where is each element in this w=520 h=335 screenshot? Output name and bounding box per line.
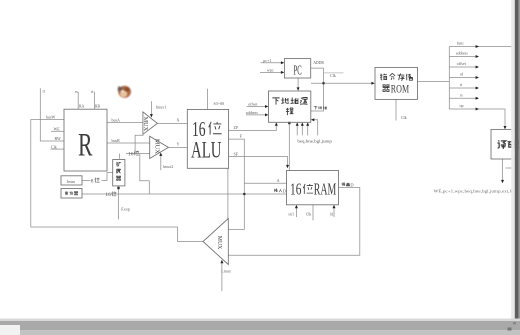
svg-text:lmux2: lmux2 [163, 164, 173, 169]
svg-text:offset: offset [457, 61, 467, 66]
wire ALU corner to MUX3 corner [227, 168, 229, 218]
arrow rd field [476, 76, 479, 79]
label register small box [65, 191, 68, 194]
svg-text:Clk: Clk [401, 115, 407, 120]
wire F output down [228, 139, 244, 229]
arrow decoder out [501, 180, 504, 183]
wire lmux2 control [160, 156, 162, 171]
svg-text:rs: rs [75, 89, 78, 94]
wire decoder side stub [506, 167, 518, 169]
wire Clk stub PC dashed [324, 72, 344, 74]
svg-text:S3~S0: S3~S0 [214, 101, 225, 106]
JUNCTIONS [117, 82, 324, 195]
svg-text:beq,bne,bgl,jump: beq,bne,bgl,jump [297, 138, 332, 144]
wire rd field [449, 77, 478, 79]
svg-text:rt: rt [91, 89, 94, 94]
wire to ROM address [311, 82, 372, 84]
svg-text:offset: offset [248, 101, 258, 106]
svg-text:RAM: RAM [314, 180, 337, 199]
PC box [284, 59, 310, 78]
wire lmux1 control [150, 101, 152, 114]
LARGE TEXT [78, 63, 336, 198]
wire rs into RA [77, 92, 79, 109]
ALU box [187, 110, 228, 169]
wire A address into RAM [244, 182, 286, 184]
junction ADDR with rom line [322, 82, 324, 84]
wire Exop control [118, 186, 120, 220]
register file R [64, 109, 107, 171]
wire SF down arrow [229, 157, 288, 166]
decoder box [491, 129, 518, 159]
wire RAM clk stub [312, 205, 314, 221]
wire Y alu input [168, 146, 187, 148]
photo border right [511, 0, 520, 335]
wire ZF to addr logic [229, 124, 277, 131]
svg-text:Clk: Clk [330, 73, 336, 78]
svg-text:R: R [78, 128, 93, 164]
svg-text:MUX: MUX [216, 236, 222, 250]
wire ADDR from PC [311, 68, 324, 111]
wire address into addr logic [246, 114, 266, 116]
extender box [113, 160, 125, 186]
svg-text:RA: RA [79, 105, 85, 109]
svg-text:address: address [246, 110, 258, 115]
wire RAM str stub [295, 208, 297, 218]
svg-text:pc+1: pc+1 [263, 58, 271, 63]
wire field tap vertical [448, 47, 450, 110]
small reg box glyphs [65, 191, 78, 195]
arrow address into addr logic [265, 113, 268, 116]
svg-text:Lmux: Lmux [221, 269, 231, 274]
svg-text:Exop: Exop [121, 207, 129, 212]
wire rt into RB [93, 92, 95, 109]
label ji line2 [286, 108, 294, 115]
MUX vertical texts [142, 117, 222, 250]
label yimaqi decoder [497, 140, 520, 148]
wire 16bit down to ram data [140, 154, 150, 194]
wire decoder output down [502, 159, 504, 181]
BOXES [61, 59, 518, 265]
svg-text:MUX: MUX [154, 139, 161, 155]
svg-text:RB: RB [95, 105, 101, 109]
wire busA [107, 122, 143, 124]
MUX1 triangle [143, 112, 158, 134]
arrow bne stub [301, 122, 304, 125]
arrow address field [476, 55, 479, 58]
arrow beq stub [296, 122, 299, 125]
wire busB [107, 142, 150, 144]
label xiadizhi output [314, 106, 327, 110]
svg-text:rt: rt [43, 89, 46, 94]
photo border bottom [0, 319, 520, 335]
label xiadizhiluoji line1 [272, 98, 279, 105]
photo speck fly [118, 86, 131, 98]
arrow rs field [476, 97, 479, 100]
svg-text:RW: RW [55, 136, 61, 141]
label qi ROM line2 [383, 85, 390, 92]
wire S3-S0 control [207, 89, 209, 110]
wire WE stub [51, 130, 64, 132]
wire beq bne bgl stubs [297, 124, 308, 136]
svg-text:rd: rd [460, 72, 463, 77]
RAM box [287, 171, 339, 205]
arrow rt field [476, 87, 479, 90]
wire RAM data out loop to MUX3 [228, 188, 359, 256]
svg-text:WE: WE [54, 127, 61, 132]
svg-text:func: func [457, 41, 464, 46]
label shuruD [274, 189, 282, 193]
wire Clk stub R [51, 148, 65, 150]
label kuozhanqi extender vertical [116, 162, 121, 180]
arrow jump into right edge [311, 118, 314, 121]
wire ROM clk stub [395, 100, 397, 121]
wire Imm to extender [82, 173, 113, 181]
next address logic box [269, 91, 311, 122]
arrow PC to addr logic [297, 87, 300, 90]
arrow bgl stub [306, 122, 309, 125]
arrow op into decoder [504, 126, 507, 129]
ARROWHEADS [150, 45, 507, 263]
svg-text:WE,pc+1,wpc,beq,bne,bgl,jump,e: WE,pc+1,wpc,beq,bne,bgl,jump,ext,ld [434, 189, 514, 194]
svg-text:PC: PC [294, 63, 302, 78]
svg-text:Imm: Imm [67, 179, 76, 184]
wire PC down to addr logic [297, 78, 299, 88]
svg-text:busW: busW [46, 115, 56, 120]
MUX2 triangle [150, 136, 169, 158]
svg-text:16: 16 [128, 151, 134, 157]
SMALL LABELS [43, 41, 514, 274]
svg-text:MUX: MUX [142, 117, 149, 132]
svg-text:wpc: wpc [267, 67, 274, 72]
svg-text:lmux1: lmux1 [156, 104, 166, 109]
svg-text:A: A [277, 178, 280, 183]
wire addr logic down to RAM top [288, 123, 290, 171]
arrow Lmux [220, 260, 223, 263]
wire func field [449, 46, 513, 48]
junction extender output [117, 187, 119, 189]
svg-text:rs: rs [460, 92, 463, 97]
svg-text:rt: rt [460, 82, 463, 87]
arrow lmux1 [150, 114, 153, 117]
wire rt field [449, 87, 478, 89]
svg-text:16: 16 [290, 180, 301, 199]
wire rs field [449, 97, 478, 99]
arrow func [476, 45, 479, 48]
arrow ld into RAM [333, 205, 336, 208]
arrow pc1 into PC [281, 61, 284, 64]
svg-text:ALU: ALU [191, 137, 222, 162]
junction addr logic bottom [288, 122, 290, 124]
svg-text:ROM: ROM [391, 84, 409, 96]
wire Lmux control [221, 263, 223, 292]
wire offset into addr logic [247, 106, 266, 108]
arrow offset into addr logic [265, 105, 268, 108]
wire jump around right side [312, 120, 318, 136]
wire ROM to field taps [418, 81, 450, 83]
arrow wpc into PC [281, 71, 284, 74]
wire busW feedback from MUX3 output [31, 120, 203, 242]
wire RAM ld stub [333, 208, 335, 218]
wire mux1 lower input [135, 135, 143, 153]
svg-text:F: F [240, 134, 243, 139]
svg-text:Clk: Clk [51, 144, 57, 149]
svg-text:X: X [177, 118, 180, 123]
label zhilingcunchu ROM line1 [380, 74, 387, 80]
arrow ZF into addr logic bottom [275, 122, 278, 125]
svg-text:Y: Y [177, 142, 180, 147]
svg-text:D: D [350, 182, 353, 187]
svg-text:ADDR: ADDR [313, 61, 324, 65]
svg-text:str1: str1 [288, 213, 294, 217]
wire address field [449, 56, 478, 58]
register box small [61, 189, 82, 199]
arrow into ROM [371, 82, 374, 85]
wire rt to RW port of R [40, 88, 64, 141]
arrow op field [476, 108, 479, 111]
wire reg16 to RAM data input [82, 193, 287, 195]
arrow str into RAM [295, 205, 298, 208]
svg-text:D: D [283, 189, 286, 194]
wire X alu input [157, 122, 187, 124]
MUX3 triangle [203, 219, 228, 265]
wire offset field [449, 66, 478, 68]
svg-text:address: address [456, 51, 468, 56]
instruction ROM box [375, 67, 418, 99]
Imm box [61, 176, 82, 185]
wire 16bit extender to mux2 [120, 154, 150, 159]
svg-text:8: 8 [91, 179, 94, 185]
svg-text:16: 16 [105, 192, 111, 198]
svg-text:busA: busA [112, 117, 121, 122]
arrow offset field [476, 66, 479, 69]
svg-text:ZF: ZF [234, 125, 239, 130]
wire pc plus 1 [261, 62, 282, 64]
CJK BLOCK LABELS [116, 73, 520, 180]
svg-text:busB: busB [112, 138, 121, 143]
svg-text:op: op [460, 103, 464, 108]
arrow lmux2 [159, 153, 162, 156]
svg-text:Clk: Clk [306, 213, 312, 217]
svg-text:ld: ld [330, 213, 333, 217]
wire wpc [260, 71, 282, 73]
label shuchuD [342, 182, 350, 186]
wire op field to decoder [449, 109, 505, 127]
svg-text:SF: SF [234, 151, 239, 156]
arrow SF down [286, 165, 289, 168]
junction F with ram data [243, 193, 245, 195]
